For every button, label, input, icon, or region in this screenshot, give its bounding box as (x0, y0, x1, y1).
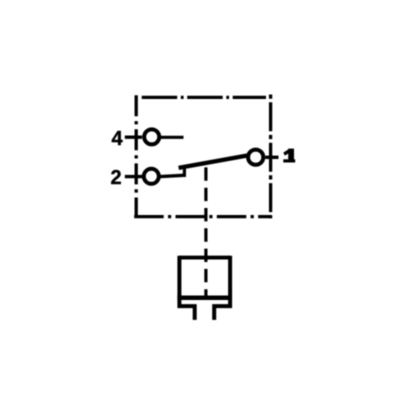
terminal 2 circle (144, 169, 159, 184)
terminal 4 tick wire (125, 135, 142, 138)
actuator box interior bar (177, 295, 232, 300)
svg-text:4: 4 (112, 128, 124, 150)
wire from terminal 2 (161, 175, 186, 176)
svg-text:2: 2 (111, 167, 122, 189)
enclosure dash-dot border right (269, 95, 272, 219)
terminal 1 tick wire (265, 156, 278, 159)
terminal 2 tick wire (125, 175, 142, 178)
label 1 (283, 149, 295, 163)
wire from terminal 4 (161, 136, 184, 139)
actuator box top (179, 256, 230, 260)
enclosure dash-dot border top (142, 96, 266, 99)
switch arm (179, 156, 248, 168)
terminal 4 circle (144, 129, 159, 144)
enclosure dash-dot border bottom (134, 215, 272, 218)
contact riser at arm tail (183, 166, 186, 177)
actuator box left side and left leg (179, 256, 194, 320)
enclosure dash-dot border left (135, 95, 138, 218)
terminal 1 circle (248, 150, 263, 165)
actuator box right side and right leg (214, 256, 230, 320)
dashed actuator link (204, 167, 207, 297)
